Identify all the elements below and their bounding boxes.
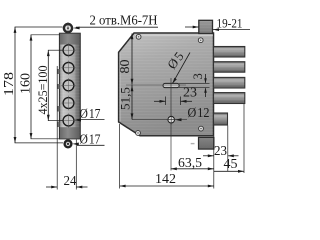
svg-text:4x25=100: 4x25=100 bbox=[36, 66, 50, 115]
svg-text:Ø 12: Ø 12 bbox=[188, 105, 210, 120]
dim 4x25=100 bbox=[36, 50, 63, 121]
extension line teeth right edge bbox=[243, 104, 245, 173]
tooth 4 bbox=[214, 93, 245, 104]
dim 23 (slot offset) bbox=[154, 85, 197, 106]
dim 19-21 (top tab) bbox=[185, 16, 250, 32]
svg-text:Ø 17: Ø 17 bbox=[80, 132, 101, 147]
O5 leader and label bbox=[164, 48, 190, 84]
callout 2 otv M6-7H bbox=[73, 14, 158, 30]
vertical centerline x=171 bbox=[170, 78, 172, 171]
slot edge extension lines to right bbox=[179, 83, 210, 85]
svg-text:45: 45 bbox=[224, 156, 238, 171]
tooth 3 bbox=[214, 77, 245, 88]
svg-text:19-21: 19-21 bbox=[217, 16, 243, 31]
dim 80 vertical line bbox=[117, 33, 133, 85]
hole 1 O17 bbox=[61, 43, 76, 58]
dim 178 bbox=[1, 27, 63, 143]
hole 3 bbox=[61, 78, 76, 93]
O12 centerline + leader bbox=[132, 105, 210, 121]
screw top-left bbox=[136, 34, 141, 39]
extension line left (body left edge) bbox=[119, 124, 121, 189]
svg-text:160: 160 bbox=[18, 73, 33, 94]
hole O12 center bbox=[166, 115, 176, 125]
svg-text:178: 178 bbox=[1, 72, 16, 96]
svg-text:Ø 17: Ø 17 bbox=[80, 106, 101, 121]
dim 3 (slot height) right side bbox=[191, 73, 207, 97]
top tab (19-21) bbox=[199, 20, 213, 33]
dim 23 bottom (tooth5) bbox=[203, 143, 239, 158]
top hole M6 bbox=[64, 22, 72, 34]
svg-text:24: 24 bbox=[64, 173, 77, 188]
label O17 lower bbox=[72, 132, 104, 147]
svg-text:51,5: 51,5 bbox=[118, 87, 133, 110]
dim 160 bbox=[18, 35, 60, 139]
bottom grommet bbox=[65, 141, 72, 148]
dim 63,5 bbox=[171, 155, 214, 170]
left strip plate bbox=[60, 33, 81, 139]
tooth 5 (short latch) bbox=[214, 113, 228, 125]
screw bottom-left bbox=[136, 131, 141, 136]
hole 5 bbox=[61, 113, 76, 128]
slot hole (keyhole slot) bbox=[163, 83, 179, 87]
dim 51,5 vertical line bbox=[118, 85, 134, 119]
hole 2 bbox=[61, 61, 76, 76]
bottom tab bbox=[191, 137, 214, 149]
dim 45 bbox=[214, 156, 244, 173]
screw bottom-right bbox=[199, 126, 204, 131]
strip left nubs bbox=[57, 69, 59, 127]
main body plate bbox=[119, 33, 214, 136]
extension line body right edge bbox=[213, 137, 215, 189]
svg-text:23: 23 bbox=[183, 85, 197, 100]
extension line latch right edge bbox=[227, 126, 229, 172]
dim 24 bbox=[46, 66, 88, 190]
screw top-right bbox=[198, 38, 203, 43]
dim 142 bbox=[120, 171, 214, 187]
svg-text:80: 80 bbox=[117, 59, 132, 73]
label O17 upper bbox=[74, 106, 104, 122]
tooth 1 bbox=[214, 47, 245, 58]
svg-text:142: 142 bbox=[155, 171, 176, 186]
horizontal centerline of slot bbox=[126, 84, 186, 86]
svg-text:63,5: 63,5 bbox=[178, 155, 202, 170]
hole 4 bbox=[61, 96, 76, 111]
svg-text:3: 3 bbox=[191, 73, 205, 79]
svg-text:2 отв.М6-7Н: 2 отв.М6-7Н bbox=[90, 14, 158, 29]
tooth 2 bbox=[214, 62, 245, 72]
